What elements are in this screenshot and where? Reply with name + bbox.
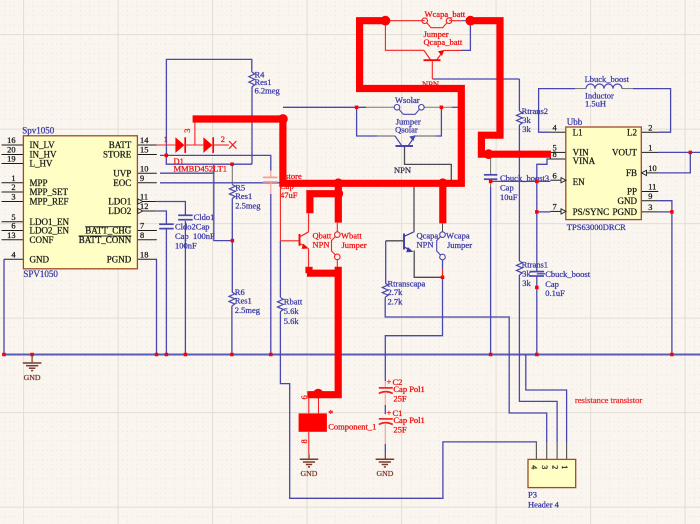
svg-text:8: 8: [300, 439, 309, 443]
svg-text:Res1: Res1: [235, 296, 252, 306]
svg-text:EN: EN: [573, 177, 585, 187]
svg-text:GND: GND: [30, 255, 50, 265]
svg-text:NPN: NPN: [417, 240, 434, 250]
svg-text:IN_LV: IN_LV: [30, 140, 56, 150]
svg-text:6: 6: [553, 171, 557, 180]
svg-text:L2: L2: [627, 127, 637, 137]
svg-text:Wcapa_batt: Wcapa_batt: [425, 9, 466, 19]
svg-text:Ubb: Ubb: [567, 117, 583, 127]
svg-text:5.6k: 5.6k: [284, 316, 300, 326]
svg-text:3k: 3k: [522, 278, 531, 288]
svg-text:2.5meg: 2.5meg: [235, 201, 261, 211]
svg-text:Qsolar: Qsolar: [395, 124, 418, 134]
svg-text:15: 15: [140, 146, 148, 155]
svg-text:STORE: STORE: [103, 150, 132, 160]
svg-text:TPS63000DRCR: TPS63000DRCR: [567, 222, 626, 232]
svg-text:Lbuck_boost: Lbuck_boost: [585, 74, 630, 84]
svg-text:EOC: EOC: [113, 178, 131, 188]
svg-text:Jumper: Jumper: [342, 240, 367, 250]
svg-text:16: 16: [7, 136, 15, 145]
svg-text:10: 10: [648, 164, 656, 173]
svg-text:MPP_SET: MPP_SET: [30, 187, 69, 197]
svg-text:3k: 3k: [522, 268, 531, 278]
svg-text:2.7k: 2.7k: [388, 297, 404, 307]
svg-text:7: 7: [553, 203, 557, 212]
svg-text:UVP: UVP: [113, 168, 131, 178]
svg-text:Jumper: Jumper: [447, 240, 472, 250]
svg-text:Wcapa: Wcapa: [446, 230, 470, 240]
svg-text:SPV1050: SPV1050: [23, 269, 58, 279]
svg-text:2: 2: [11, 183, 15, 192]
svg-text:9: 9: [648, 192, 652, 201]
svg-text:GND: GND: [24, 373, 41, 382]
svg-text:GND: GND: [618, 196, 638, 206]
svg-text:6.2meg: 6.2meg: [255, 86, 281, 96]
svg-text:5: 5: [11, 213, 15, 222]
svg-text:L1: L1: [573, 127, 583, 137]
svg-text:Res1: Res1: [235, 191, 252, 201]
svg-text:2.7k: 2.7k: [388, 287, 404, 297]
svg-text:5.6k: 5.6k: [284, 306, 300, 316]
svg-text:Spv1050: Spv1050: [22, 126, 55, 136]
svg-text:LDO2: LDO2: [108, 206, 131, 216]
svg-text:Cbuck_boost: Cbuck_boost: [545, 269, 591, 279]
svg-text:VINA: VINA: [573, 156, 596, 166]
svg-text:3: 3: [540, 465, 549, 469]
svg-text:7: 7: [140, 222, 144, 231]
svg-text:NPN: NPN: [313, 240, 330, 250]
svg-text:MMBD452LT1: MMBD452LT1: [174, 163, 228, 173]
svg-text:Wbatt: Wbatt: [341, 230, 362, 240]
svg-text:Cbuck_boost3: Cbuck_boost3: [500, 173, 549, 183]
svg-text:47uF: 47uF: [280, 190, 298, 200]
svg-text:3k: 3k: [522, 124, 531, 134]
svg-text:25F: 25F: [393, 425, 407, 435]
svg-text:BATT: BATT: [109, 140, 132, 150]
svg-text:14: 14: [140, 136, 149, 145]
svg-text:20: 20: [7, 146, 15, 155]
svg-text:NPN: NPN: [394, 165, 411, 175]
svg-text:1: 1: [11, 174, 15, 183]
svg-text:Header 4: Header 4: [528, 500, 560, 510]
svg-text:1: 1: [648, 144, 652, 153]
svg-text:CONF: CONF: [30, 235, 54, 245]
svg-text:3: 3: [11, 193, 15, 202]
svg-text:3: 3: [648, 203, 652, 212]
svg-text:2.5meg: 2.5meg: [235, 305, 261, 315]
svg-text:+: +: [387, 408, 392, 418]
svg-text:2: 2: [221, 135, 225, 144]
svg-text:18: 18: [140, 251, 148, 260]
svg-text:6: 6: [11, 222, 15, 231]
svg-text:11: 11: [648, 183, 656, 192]
svg-text:1: 1: [164, 135, 168, 144]
svg-text:Cap 100nF: Cap 100nF: [175, 231, 215, 241]
svg-text:GND: GND: [301, 469, 318, 478]
svg-text:PGND: PGND: [612, 207, 637, 217]
svg-text:1.5uH: 1.5uH: [585, 99, 606, 109]
svg-text:8: 8: [140, 231, 144, 240]
svg-text:Cap: Cap: [500, 183, 514, 193]
svg-text:Cldo1: Cldo1: [194, 212, 215, 222]
svg-text:0.1uF: 0.1uF: [545, 288, 565, 298]
svg-text:FB: FB: [626, 168, 637, 178]
svg-text:1: 1: [560, 465, 569, 469]
svg-text:P3: P3: [528, 490, 537, 500]
svg-text:PGND: PGND: [107, 255, 132, 265]
svg-text:8: 8: [553, 150, 557, 159]
svg-text:MPP_REF: MPP_REF: [30, 197, 69, 207]
svg-text:VOUT: VOUT: [612, 148, 637, 158]
svg-text:resistance transistor: resistance transistor: [575, 395, 642, 405]
svg-text:*: *: [328, 409, 333, 420]
svg-text:BATT_CONN: BATT_CONN: [79, 235, 132, 245]
svg-text:19: 19: [7, 155, 15, 164]
svg-text:PS/SYNC: PS/SYNC: [573, 207, 610, 217]
svg-text:Cldo2Cap: Cldo2Cap: [175, 222, 209, 232]
svg-text:+: +: [387, 377, 392, 387]
svg-text:9: 9: [140, 174, 144, 183]
svg-text:2: 2: [550, 465, 559, 469]
svg-text:Qcapa_batt: Qcapa_batt: [424, 37, 463, 47]
svg-text:100nF: 100nF: [175, 241, 197, 251]
svg-text:LDO1: LDO1: [108, 197, 131, 207]
svg-text:Wsolar: Wsolar: [395, 95, 420, 105]
svg-text:GND: GND: [376, 469, 393, 478]
svg-text:L_HV: L_HV: [30, 159, 53, 169]
svg-text:4: 4: [530, 465, 539, 469]
svg-text:13: 13: [7, 231, 15, 240]
svg-text:2: 2: [648, 123, 652, 132]
svg-text:10uF: 10uF: [500, 192, 518, 202]
svg-text:Component_1: Component_1: [328, 422, 376, 432]
svg-text:10: 10: [140, 164, 148, 173]
svg-text:3: 3: [183, 129, 192, 133]
svg-text:Rbatt: Rbatt: [284, 297, 303, 307]
svg-text:25F: 25F: [393, 394, 407, 404]
